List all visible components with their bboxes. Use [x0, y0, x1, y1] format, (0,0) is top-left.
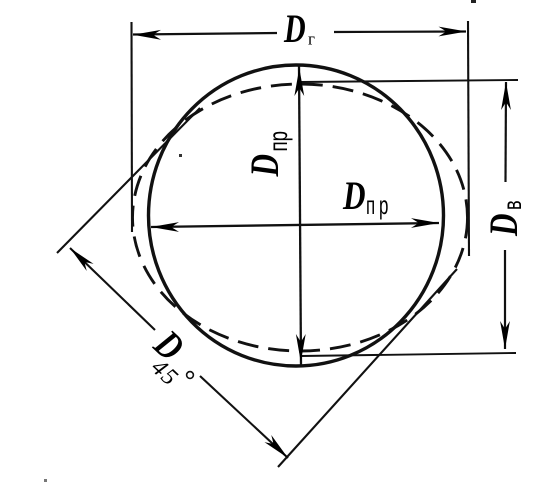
- svg-text:D: D: [242, 154, 287, 177]
- svg-text:D: D: [481, 213, 526, 236]
- svg-text:D: D: [283, 6, 306, 51]
- dimension line Dпр vertical: [299, 65, 301, 365]
- extension line bottom (Dв): [302, 353, 516, 356]
- dimension line Dпр horizontal: [151, 223, 439, 227]
- svg-text:45: 45: [146, 354, 183, 391]
- label Dв (rotated): [481, 213, 526, 236]
- label D45 (rotated 43°): [145, 321, 193, 370]
- stray dot: [179, 154, 182, 157]
- svg-text:в: в: [498, 200, 527, 210]
- svg-text:г: г: [308, 30, 315, 49]
- oval section (dashed ellipse): [133, 84, 468, 351]
- ideal circle (solid): [149, 65, 444, 366]
- label Dпр horizontal: [342, 173, 365, 218]
- dimension line Dг: [133, 33, 277, 35]
- tangent line B (lower-right, 45°): [278, 269, 457, 467]
- extension line top (Dв): [300, 80, 518, 82]
- stray mark top edge: [471, 0, 476, 3]
- extension line left (Dг): [130, 22, 133, 232]
- tangent line A (upper-left, 45°): [57, 108, 200, 253]
- extension line right (Dг): [468, 21, 469, 256]
- label Dг: [283, 6, 306, 51]
- stray dot bottom: [44, 479, 47, 482]
- svg-text:D: D: [342, 173, 365, 218]
- label Dпр vertical (rotated): [242, 154, 287, 177]
- dimension line D45: [70, 248, 155, 330]
- svg-text:пр: пр: [366, 190, 392, 220]
- dimension line Dв: [504, 82, 507, 182]
- svg-text:пр: пр: [263, 131, 293, 152]
